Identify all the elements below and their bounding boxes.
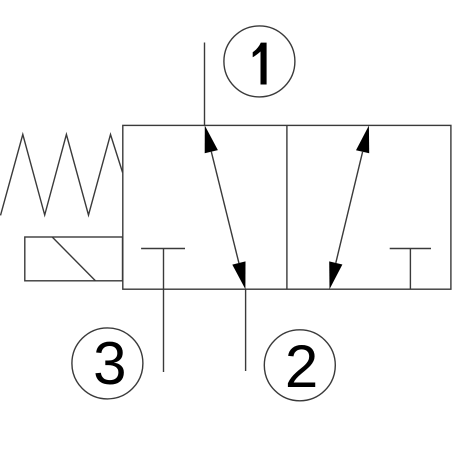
- svg-text:3: 3: [93, 330, 126, 397]
- svg-text:2: 2: [285, 333, 318, 400]
